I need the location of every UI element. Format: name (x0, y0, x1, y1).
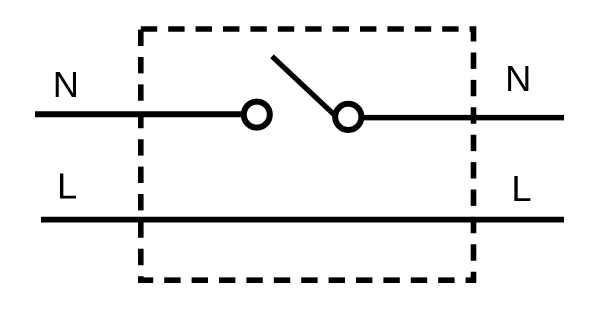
switch SW1 blade (272, 56, 337, 117)
switch SW1 right contact (335, 104, 361, 130)
switch SW1 left contact (244, 102, 270, 128)
wire L (41, 217, 564, 223)
svg-text:L: L (511, 168, 531, 209)
svg-text:N: N (505, 58, 531, 99)
wire N right segment (353, 115, 564, 121)
enclosure dashed boundary (141, 29, 474, 280)
svg-text:L: L (57, 166, 77, 207)
wire N left segment (35, 111, 244, 117)
svg-text:N: N (53, 64, 79, 105)
